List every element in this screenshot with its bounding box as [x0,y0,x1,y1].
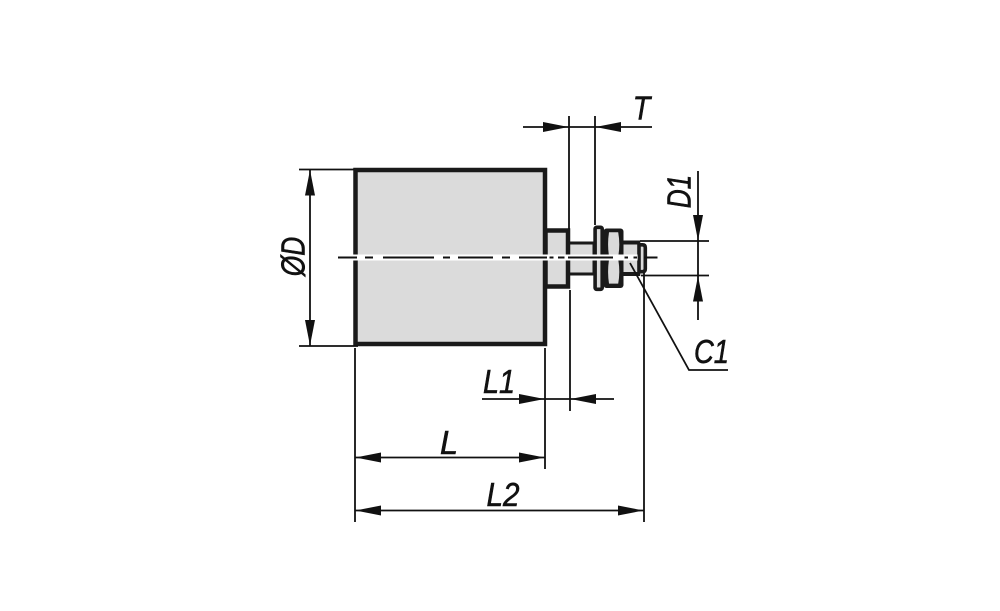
dimension T: extension line right [594,116,596,225]
dimension L1: arrowhead left (outside) [571,394,597,404]
stud bottom edge [624,272,641,276]
dimension OD: dimension line [309,170,311,347]
dimension OD: extension line top [299,169,354,171]
svg-text:L1: L1 [483,363,515,400]
dimension L: dimension line [355,457,545,459]
shared extension line at cylinder right edge (L and L1) [544,348,546,469]
svg-text:L: L [440,424,458,461]
dimension OD: arrowhead down [305,320,315,346]
dimension L: arrowhead right [519,453,545,463]
dimension L1: dimension line [482,398,614,400]
centerline white casing [338,255,638,261]
dimension OD: arrowhead up [305,170,315,196]
svg-text:C1: C1 [694,333,729,370]
dimension T: arrowhead right (outside) [543,122,569,132]
hex nut facet window (upper barrel) [608,232,619,255]
dimension D1: arrowhead up (outside) [693,276,703,302]
stud (threaded end) body fill [624,242,640,275]
dimension L2: arrowhead left [356,506,382,516]
shared extension line at cylinder left edge (L and L2) [354,348,356,522]
dimension D1: extension line top [640,240,709,242]
leader C1: leader line [630,263,728,370]
stud end cap with chamfer [639,245,645,272]
dimension L2: dimension line [355,510,644,512]
dimension T: arrowhead left (outside) [596,122,622,132]
chamfer line on stud [638,241,641,276]
dimension D1: extension line bottom [641,275,709,277]
shaft (small diameter section) [568,243,594,274]
cylinder body (main block) [356,170,546,344]
svg-text:L2: L2 [487,476,520,513]
collar (first section after cylinder) [546,231,569,287]
washer flange of nut [595,227,602,289]
dimension L1: arrowhead right (outside) [519,394,545,404]
dimension L1: extension line right [569,290,571,411]
svg-text:ØD: ØD [275,237,312,277]
dimension T: dimension line [523,126,652,128]
dimension D1: arrowhead down (outside) [693,215,703,241]
svg-text:D1: D1 [661,175,698,209]
dimension OD: extension line bottom [299,345,358,347]
hex nut facet window (lower barrel) [608,260,619,283]
stud top edge [624,241,641,245]
hex nut (side view, black with facet windows) [604,229,624,289]
dimension L2: extension line right (at stud end) [643,273,645,522]
dimension L: arrowhead left [356,453,382,463]
centerline (dash-dot axis) [338,257,658,259]
svg-text:T: T [633,90,653,127]
dimension L2: arrowhead right [618,506,644,516]
dimension T: extension line left [568,116,570,229]
dimension D1: dimension line [697,171,699,320]
